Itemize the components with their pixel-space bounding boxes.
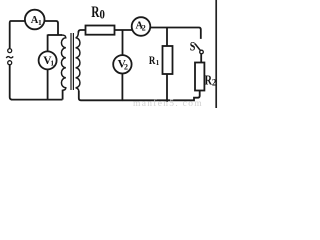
voltmeter V2 (113, 55, 131, 73)
resistor R1 (163, 46, 173, 74)
transformer secondary coil (76, 32, 80, 92)
wire V2 riser (122, 30, 124, 56)
svg-text:1: 1 (50, 58, 54, 67)
AC source tilde (6, 56, 13, 58)
svg-text:S: S (190, 39, 196, 53)
label R2 (205, 72, 217, 87)
transformer primary coil (61, 35, 65, 100)
label R0 (91, 4, 105, 22)
wire R1 riser (166, 28, 168, 47)
ammeter A2 (132, 17, 151, 36)
svg-text:manfen5. com: manfen5. com (133, 98, 203, 108)
wire secondary bottom to right loop (79, 91, 123, 100)
wire left vertical below source (10, 65, 12, 100)
svg-text:0: 0 (100, 8, 105, 22)
wire switch to R2 (200, 54, 202, 63)
switch S terminal (200, 50, 204, 54)
switch S blade (195, 44, 200, 51)
wire primary top horizontal (48, 34, 62, 36)
wire V1 to bottom (47, 69, 49, 99)
svg-text:R: R (149, 53, 156, 67)
right border line (215, 0, 217, 108)
wire bottom right middle (122, 99, 167, 101)
resistor R0 (86, 26, 115, 35)
svg-text:1: 1 (38, 18, 42, 27)
AC source terminal lower (8, 61, 12, 65)
svg-text:2: 2 (124, 62, 128, 71)
voltmeter V1 (39, 51, 57, 69)
wire R0 to A2 (115, 29, 132, 31)
AC source terminal upper (8, 49, 12, 53)
wire top-left from source to A1 (10, 21, 25, 48)
wire R1 to bottom (166, 74, 168, 102)
wire V2 to bottom (121, 73, 123, 100)
svg-text:2: 2 (142, 23, 146, 32)
wire R2 to bottom (167, 91, 200, 101)
transformer core (71, 33, 73, 90)
wire V1 riser (47, 35, 49, 52)
wire A2 to right corner and down to switch (150, 28, 201, 39)
wire secondary top to R0 (78, 30, 85, 33)
wire bottom-left (11, 99, 63, 101)
ammeter A1 (25, 10, 45, 30)
svg-text:1: 1 (156, 59, 160, 67)
label S (190, 39, 196, 53)
label R1 (149, 53, 160, 67)
resistor R2 (195, 63, 204, 91)
watermark (133, 98, 203, 109)
wire A1 to primary top (45, 21, 59, 35)
